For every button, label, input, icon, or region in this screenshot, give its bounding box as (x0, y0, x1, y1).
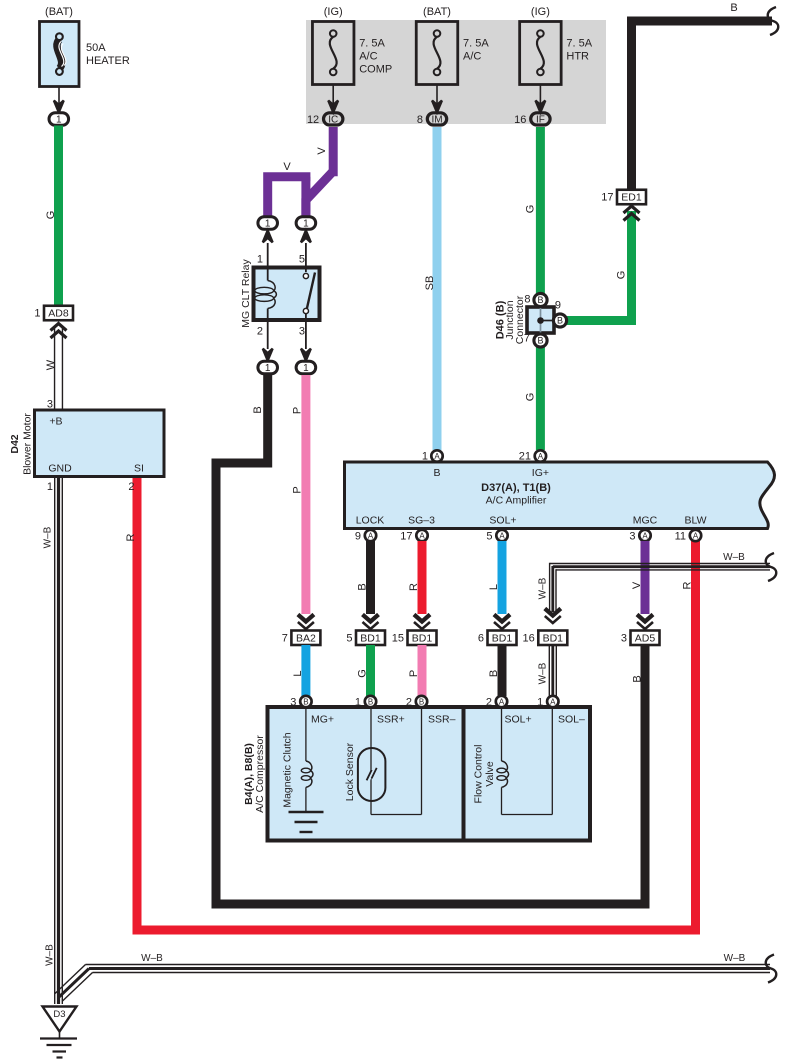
svg-text:9: 9 (355, 531, 361, 543)
svg-text:1: 1 (303, 363, 309, 374)
svg-text:1: 1 (422, 451, 428, 463)
svg-text:BD1: BD1 (412, 632, 433, 644)
svg-text:7. 5A: 7. 5A (566, 38, 592, 50)
svg-text:R: R (681, 581, 693, 589)
svg-text:A: A (499, 532, 505, 541)
svg-text:16: 16 (514, 114, 526, 126)
svg-text:5: 5 (299, 254, 305, 266)
svg-text:A: A (538, 452, 544, 461)
svg-text:3: 3 (629, 531, 635, 543)
svg-text:HEATER: HEATER (86, 55, 130, 67)
svg-text:BD1: BD1 (492, 632, 513, 644)
svg-text:G: G (45, 211, 57, 220)
svg-text:W–B: W–B (141, 953, 163, 964)
svg-text:17: 17 (601, 192, 613, 204)
svg-text:B: B (488, 670, 500, 677)
svg-text:AD5: AD5 (635, 632, 656, 644)
svg-text:2: 2 (257, 326, 263, 338)
svg-text:MG CLT Relay: MG CLT Relay (240, 259, 252, 328)
svg-text:G: G (524, 205, 536, 214)
svg-text:HTR: HTR (566, 51, 589, 63)
svg-text:6: 6 (478, 632, 484, 644)
svg-text:(BAT): (BAT) (423, 6, 451, 18)
svg-text:W: W (45, 359, 57, 370)
svg-text:Blower Motor: Blower Motor (22, 413, 34, 475)
svg-text:SSR+: SSR+ (377, 714, 405, 726)
svg-text:(BAT): (BAT) (45, 6, 73, 18)
svg-text:P: P (291, 486, 303, 493)
svg-text:V: V (316, 147, 328, 155)
svg-text:G: G (524, 393, 536, 402)
svg-text:1: 1 (56, 115, 62, 126)
svg-text:A: A (642, 532, 648, 541)
svg-text:G: G (615, 271, 627, 280)
svg-text:21: 21 (519, 451, 531, 463)
svg-text:SSR–: SSR– (428, 714, 456, 726)
svg-text:BLW: BLW (685, 515, 707, 527)
svg-text:ED1: ED1 (621, 192, 642, 204)
svg-text:GND: GND (48, 463, 72, 475)
svg-text:B: B (537, 336, 543, 346)
svg-text:1: 1 (303, 219, 309, 230)
svg-text:1: 1 (355, 697, 361, 709)
svg-text:SOL–: SOL– (558, 714, 585, 726)
svg-text:SI: SI (134, 463, 144, 475)
svg-text:2: 2 (406, 697, 412, 709)
svg-text:9: 9 (555, 300, 561, 312)
svg-text:G: G (356, 669, 368, 678)
svg-text:B: B (537, 295, 543, 305)
svg-text:Connector: Connector (514, 295, 526, 344)
svg-text:1: 1 (265, 363, 271, 374)
svg-text:LOCK: LOCK (356, 515, 385, 527)
svg-text:L: L (488, 584, 500, 590)
svg-text:+B: +B (49, 416, 62, 428)
svg-text:2: 2 (486, 697, 492, 709)
svg-text:A/C Compressor: A/C Compressor (254, 735, 266, 813)
svg-text:B: B (419, 698, 424, 707)
svg-text:5: 5 (346, 632, 352, 644)
svg-text:COMP: COMP (359, 64, 392, 76)
svg-text:MGC: MGC (633, 515, 658, 527)
svg-text:SG–3: SG–3 (408, 515, 435, 527)
svg-text:Lock Sensor: Lock Sensor (344, 742, 356, 801)
svg-text:2: 2 (128, 481, 134, 493)
svg-text:7. 5A: 7. 5A (463, 38, 489, 50)
svg-text:V: V (283, 161, 291, 173)
svg-text:A: A (693, 532, 699, 541)
svg-text:1: 1 (34, 308, 40, 320)
svg-text:15: 15 (392, 632, 404, 644)
svg-text:SB: SB (424, 276, 436, 291)
svg-text:1: 1 (47, 481, 53, 493)
svg-text:1: 1 (257, 254, 263, 266)
svg-text:B: B (631, 675, 643, 682)
svg-text:A: A (550, 698, 556, 707)
svg-text:12: 12 (307, 114, 319, 126)
svg-text:B: B (730, 2, 737, 14)
svg-text:3: 3 (299, 326, 305, 338)
svg-text:A/C: A/C (463, 51, 481, 63)
svg-text:A: A (499, 698, 505, 707)
svg-text:W–B: W–B (538, 577, 549, 599)
svg-text:P: P (291, 407, 303, 414)
svg-text:8: 8 (417, 114, 423, 126)
svg-text:17: 17 (400, 531, 412, 543)
svg-text:7: 7 (282, 632, 288, 644)
svg-text:1: 1 (265, 219, 271, 230)
svg-text:IC: IC (328, 114, 338, 125)
svg-text:11: 11 (675, 531, 686, 543)
svg-text:B: B (557, 316, 563, 326)
svg-text:(IG): (IG) (324, 6, 343, 18)
svg-text:BD1: BD1 (360, 632, 381, 644)
svg-text:7. 5A: 7. 5A (359, 38, 385, 50)
svg-text:W–B: W–B (724, 953, 746, 964)
svg-text:B: B (303, 698, 308, 707)
svg-text:5: 5 (486, 531, 492, 543)
svg-text:A: A (368, 532, 374, 541)
svg-text:W–B: W–B (723, 552, 745, 563)
svg-text:BD1: BD1 (543, 632, 564, 644)
svg-text:R: R (408, 583, 420, 591)
svg-text:16: 16 (523, 632, 535, 644)
svg-text:W–B: W–B (43, 526, 54, 548)
svg-text:1: 1 (537, 697, 543, 709)
svg-text:A: A (419, 532, 425, 541)
svg-text:3: 3 (621, 632, 627, 644)
svg-text:B: B (252, 406, 264, 413)
svg-text:3: 3 (290, 697, 296, 709)
svg-text:BA2: BA2 (296, 632, 316, 644)
svg-text:IM: IM (431, 114, 442, 125)
svg-text:B: B (433, 467, 440, 479)
svg-text:MG+: MG+ (311, 714, 334, 726)
svg-text:IF: IF (536, 114, 545, 125)
svg-text:A: A (434, 452, 440, 461)
svg-text:P: P (408, 670, 420, 677)
svg-text:Magnetic Clutch: Magnetic Clutch (282, 732, 294, 807)
svg-text:Flow Control: Flow Control (473, 745, 485, 804)
svg-text:SOL+: SOL+ (489, 515, 516, 527)
svg-text:D37(A), T1(B): D37(A), T1(B) (481, 482, 551, 494)
svg-text:AD8: AD8 (48, 308, 69, 320)
svg-text:V: V (631, 581, 643, 589)
svg-text:A/C: A/C (359, 51, 377, 63)
svg-text:D42: D42 (9, 434, 21, 453)
svg-text:(IG): (IG) (531, 6, 550, 18)
svg-text:B: B (356, 583, 368, 590)
svg-text:SOL+: SOL+ (505, 714, 532, 726)
svg-text:A/C Amplifier: A/C Amplifier (486, 495, 547, 507)
svg-text:D3: D3 (53, 1009, 65, 1020)
svg-text:Valve: Valve (484, 761, 496, 787)
svg-text:B: B (368, 698, 373, 707)
svg-text:W–B: W–B (538, 662, 549, 684)
svg-text:R: R (125, 533, 137, 541)
svg-text:L: L (292, 670, 304, 676)
svg-text:IG+: IG+ (532, 467, 549, 479)
svg-text:W–B: W–B (45, 944, 56, 966)
svg-text:50A: 50A (86, 42, 106, 54)
